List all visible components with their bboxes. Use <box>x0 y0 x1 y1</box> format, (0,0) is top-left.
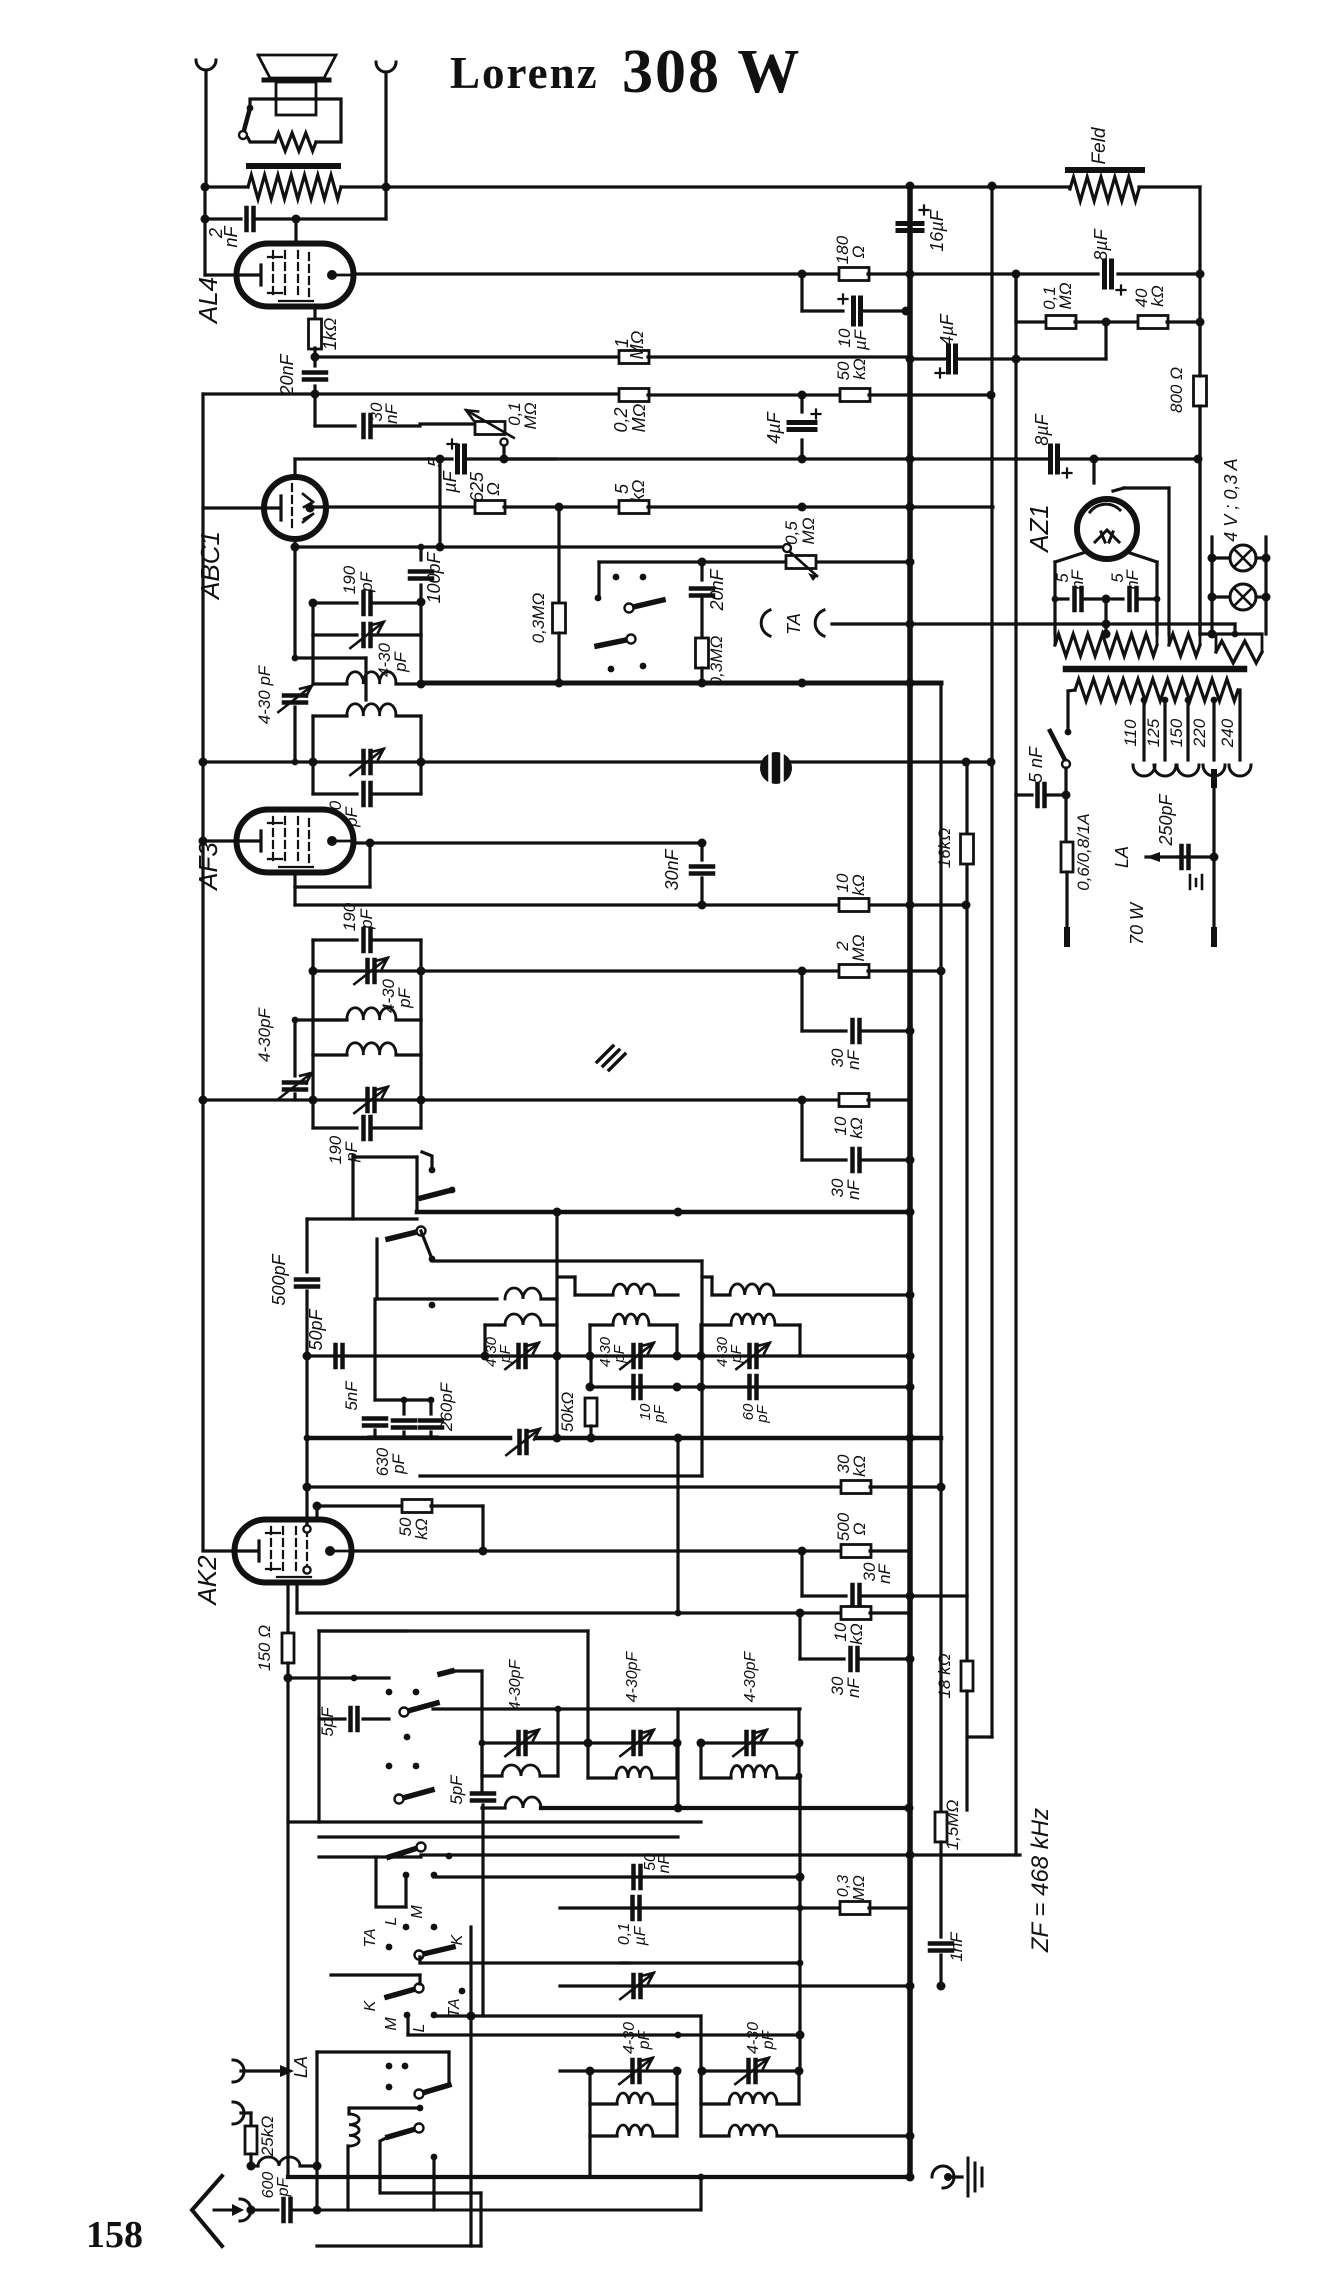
resistor 0.1MOhm <box>1046 316 1076 329</box>
svg-text:pF: pF <box>357 570 376 592</box>
svg-text:LA: LA <box>291 2056 311 2078</box>
loudspeaker <box>258 55 336 78</box>
wire vertical x678 <box>676 1709 679 1808</box>
svg-text:nF: nF <box>875 1562 894 1583</box>
bottom tank coil a <box>588 2071 591 2104</box>
wire screen line <box>315 355 620 358</box>
node <box>311 353 320 362</box>
svg-text:800 Ω: 800 Ω <box>1167 367 1186 413</box>
capacitor 600pF <box>284 2199 291 2221</box>
osc tank coil c <box>699 1325 702 1356</box>
node <box>417 680 426 689</box>
node <box>313 2162 322 2171</box>
switch lever <box>597 639 631 646</box>
capacitor 5nF filament left <box>1055 597 1068 600</box>
bottom tank coil b <box>699 2071 702 2104</box>
transformer primary winding right <box>1216 641 1262 663</box>
capacitor 30nF <box>364 415 371 437</box>
switch lever <box>429 1167 436 1174</box>
node <box>698 679 707 688</box>
wire AVC line <box>295 545 786 548</box>
node <box>906 2173 915 2182</box>
wire grid return line <box>203 392 620 395</box>
resistor 0.3MOhm <box>557 507 560 603</box>
node <box>798 1547 807 1556</box>
wire left drop from terminal <box>203 187 206 275</box>
wire <box>910 357 945 360</box>
switch box frame <box>317 1631 320 1822</box>
svg-text:pF: pF <box>760 2029 777 2050</box>
node <box>500 455 509 464</box>
osc trimmer 4-30pF a <box>519 1345 526 1367</box>
capacitor 30nF <box>800 1100 803 1160</box>
svg-text:L: L <box>383 1917 400 1926</box>
svg-text:30nF: 30nF <box>662 848 682 890</box>
output transformer core bar <box>249 163 338 169</box>
capacitor 5nF mains <box>1014 793 1017 796</box>
trimmer 4-30pF <box>368 960 375 982</box>
osc tank coil b <box>588 1325 591 1356</box>
speaker terminal right <box>376 62 396 72</box>
svg-text:0,3MΩ: 0,3MΩ <box>529 593 548 644</box>
node <box>291 543 300 552</box>
wire screen line <box>295 903 966 906</box>
wire K3 up <box>418 1975 421 1984</box>
svg-text:nF: nF <box>1123 568 1142 589</box>
IFT1 coil primary <box>311 635 314 684</box>
svg-text:70 W: 70 W <box>1127 901 1147 945</box>
capacitor 50nF <box>634 1866 641 1888</box>
oscillator coil B <box>575 1293 613 1296</box>
capacitor 5nF filament right <box>1112 597 1123 600</box>
electrolytic 8uF second <box>1051 446 1058 472</box>
svg-text:25kΩ: 25kΩ <box>258 2116 277 2157</box>
node <box>906 182 915 191</box>
node <box>1196 318 1205 327</box>
secondary taps <box>1141 697 1148 704</box>
node <box>1062 791 1071 800</box>
svg-text:8µF: 8µF <box>1091 228 1111 260</box>
wire osc coupling line <box>429 1256 436 1263</box>
ant trimmer 4-30pF b <box>588 1741 677 1744</box>
svg-text:AK2: AK2 <box>192 1555 222 1607</box>
wire LA branch <box>315 2052 318 2210</box>
capacitor 5pF second <box>472 1794 494 1801</box>
tube AF3 <box>237 810 354 873</box>
svg-text:4µF: 4µF <box>937 313 957 345</box>
wire stub <box>967 1735 992 1738</box>
svg-text:kΩ: kΩ <box>847 1623 866 1645</box>
svg-text:M: M <box>383 2017 400 2031</box>
node <box>906 1027 915 1036</box>
coupling trimmer 4-30pF <box>293 547 296 658</box>
wire tank feed line <box>433 1707 800 1710</box>
svg-text:pF: pF <box>611 1344 628 1363</box>
svg-text:308 W: 308 W <box>622 38 801 106</box>
svg-text:0,2: 0,2 <box>611 407 631 432</box>
svg-text:pF: pF <box>754 1404 771 1423</box>
svg-text:µF: µF <box>632 1925 649 1946</box>
antenna terminal <box>240 2199 251 2221</box>
svg-text:nF: nF <box>656 1853 673 1873</box>
svg-text:L: L <box>411 2024 428 2033</box>
svg-text:kΩ: kΩ <box>1148 285 1167 307</box>
wire KML line A <box>319 1855 421 1858</box>
oscillator coil C <box>712 1293 730 1296</box>
tuning gang symbol <box>760 752 792 784</box>
node <box>436 455 445 464</box>
switch contacts LA <box>386 2063 393 2070</box>
resistor 50kOhm osc grid <box>315 1506 318 1519</box>
svg-text:MΩ: MΩ <box>521 402 540 429</box>
capacitor 30nF <box>800 1551 803 1596</box>
svg-text:kΩ: kΩ <box>628 479 648 502</box>
svg-text:µF: µF <box>440 470 460 493</box>
osc trimmer 4-30pF b <box>634 1345 641 1367</box>
svg-text:nF: nF <box>844 1178 863 1199</box>
wire padder bottom <box>369 1435 437 1438</box>
svg-text:20nF: 20nF <box>707 568 727 611</box>
node <box>906 1592 915 1601</box>
IFT1 coil secondary <box>311 716 314 762</box>
transformer core bar <box>1066 666 1244 673</box>
svg-text:4 V ; 0,3 A: 4 V ; 0,3 A <box>1221 458 1241 541</box>
svg-text:16µF: 16µF <box>927 209 947 251</box>
svg-text:4-30pF: 4-30pF <box>507 1658 524 1710</box>
antenna coil primary a <box>479 1740 486 1747</box>
wire 460 line <box>504 457 910 460</box>
wire box bottom <box>288 1820 701 1823</box>
rotary switch contacts <box>613 574 620 581</box>
capacitor 1nF <box>930 1944 952 1951</box>
switch lever K2 <box>419 1947 453 1955</box>
tube AL4 <box>237 244 354 307</box>
resistor 800Ohm <box>1194 376 1207 406</box>
wire thick line to bus <box>417 1210 910 1215</box>
field coil Feld <box>992 185 1070 188</box>
capacitor 2nF <box>205 217 241 220</box>
main HT bus vertical <box>907 186 913 2177</box>
node <box>798 391 807 400</box>
svg-text:0,3: 0,3 <box>835 1875 852 1897</box>
wire switch feed <box>599 560 702 563</box>
svg-text:240: 240 <box>1218 718 1237 748</box>
wire 30nF branch <box>313 394 316 426</box>
wire thick AVC-osc line <box>307 1436 510 1441</box>
IFT2 capacitor 190pF lower <box>311 1100 314 1128</box>
wire ABC1 anode line <box>310 505 476 508</box>
svg-text:µF: µF <box>851 328 870 351</box>
svg-text:4-30 pF: 4-30 pF <box>255 664 274 724</box>
svg-text:Lorenz: Lorenz <box>450 48 599 98</box>
electrolytic 10uF <box>800 274 803 311</box>
resistor 0.2MOhm <box>619 389 649 402</box>
capacitor 10pF <box>634 1376 641 1398</box>
wire switch drop <box>447 2052 450 2085</box>
ant tank coil a <box>480 1743 483 1776</box>
svg-text:100pF: 100pF <box>424 551 444 603</box>
transformer primary winding mid <box>1169 634 1200 656</box>
svg-text:4-30pF: 4-30pF <box>742 1650 759 1702</box>
resistor 1MOhm <box>619 351 649 364</box>
svg-text:50pF: 50pF <box>306 1308 326 1350</box>
capacitor 500pF <box>305 1219 308 1272</box>
node <box>1102 318 1111 327</box>
bottom trimmer 4-30pF b <box>749 2060 756 2082</box>
resistor 500Ohm <box>841 1545 871 1558</box>
wire cathode bottom stub <box>293 539 296 547</box>
node <box>906 2132 915 2141</box>
svg-text:Ω: Ω <box>849 245 868 258</box>
osc trimmer 4-30pF c <box>750 1345 757 1367</box>
resistor 30kOhm <box>841 1481 871 1494</box>
wire antenna line <box>248 2209 278 2212</box>
node <box>698 901 707 910</box>
wire ABC1 grid lead <box>203 506 264 509</box>
svg-text:MΩ: MΩ <box>627 330 647 359</box>
tube AZ1 <box>1092 459 1095 483</box>
svg-text:LA: LA <box>1112 846 1132 868</box>
ant tank coil c <box>699 1743 702 1778</box>
trimmer in line <box>634 1975 641 1997</box>
svg-text:110: 110 <box>1121 719 1140 747</box>
resistor 625Ohm <box>475 501 505 514</box>
antenna coupling coil <box>251 2164 258 2167</box>
wire cathode top line <box>295 457 452 460</box>
svg-text:pF: pF <box>391 650 410 672</box>
svg-text:MΩ: MΩ <box>851 1875 868 1901</box>
svg-text:pF: pF <box>389 1452 408 1474</box>
wire <box>555 1212 558 1438</box>
capacitor 260pF <box>428 1397 435 1404</box>
node <box>584 1739 593 1748</box>
trimmer 4-30pF lower <box>311 1055 314 1100</box>
wire <box>305 1356 308 1438</box>
resistor 25kOhm <box>245 2126 257 2154</box>
resistor 180Ohm <box>798 270 807 279</box>
bottom tank coil b2 <box>701 2134 729 2137</box>
wire AF3 anode line <box>354 841 702 844</box>
speaker terminal left <box>196 60 216 70</box>
node <box>1052 596 1059 603</box>
node <box>906 1156 915 1165</box>
switch lever <box>629 600 663 608</box>
capacitor 630pF <box>401 1397 408 1404</box>
wire bottom trimmer row a <box>560 2069 677 2072</box>
transformer secondary winding <box>1075 679 1238 701</box>
wire AZ1 filament leads <box>1055 552 1086 562</box>
node <box>586 2067 595 2076</box>
wire vertical line right <box>1014 274 1017 1855</box>
wire trimmer row <box>307 1354 910 1357</box>
node <box>1154 596 1161 603</box>
wire grid cap lead <box>294 219 297 243</box>
resistor 16kOhm <box>961 834 974 864</box>
svg-text:150: 150 <box>1167 718 1186 747</box>
electrolytic 8uF <box>1105 261 1112 287</box>
switch contacts bottom <box>404 2012 411 2019</box>
wire to right terminal <box>296 217 386 220</box>
wire 10k line long <box>203 1098 841 1101</box>
svg-text:Ω: Ω <box>483 482 503 496</box>
node <box>201 215 210 224</box>
resistor 50kOhm osc <box>589 1356 592 1386</box>
wire switch line to bus <box>702 560 910 563</box>
ground symbol <box>968 2158 982 2196</box>
node <box>1012 355 1021 364</box>
wire <box>504 505 620 508</box>
terminal LA <box>233 2060 244 2082</box>
electrolytic 4uF right <box>949 346 956 372</box>
svg-text:MΩ: MΩ <box>629 403 649 432</box>
svg-text:260pF: 260pF <box>437 1381 456 1432</box>
svg-text:5 nF: 5 nF <box>1026 746 1046 783</box>
svg-text:0,1: 0,1 <box>616 1923 633 1945</box>
tube AK2 <box>235 1520 352 1583</box>
svg-text:150 Ω: 150 Ω <box>255 1625 274 1671</box>
switch lever K1 <box>389 1847 421 1857</box>
wire g-line AK2 <box>297 1611 842 1614</box>
resistor 1.5MOhm <box>935 1812 947 1842</box>
capacitor 20nF <box>313 357 316 366</box>
node <box>309 599 318 608</box>
resistor 18kOhm <box>965 1596 968 1660</box>
svg-text:pF: pF <box>636 2029 653 2050</box>
potentiometer 0.1MOhm volume <box>420 422 476 425</box>
ant trimmer 4-30pF a <box>519 1732 526 1754</box>
resistor 10kOhm <box>839 899 869 912</box>
svg-text:ZF = 468 kHz: ZF = 468 kHz <box>1027 1808 1054 1953</box>
svg-text:pF: pF <box>651 1404 668 1423</box>
svg-text:nF: nF <box>1068 568 1087 589</box>
bus branch vertical 2 <box>965 762 968 833</box>
node <box>313 2206 322 2215</box>
node <box>311 390 320 399</box>
svg-text:TA: TA <box>362 1928 379 1947</box>
wire <box>432 2157 435 2210</box>
wire long left vertical bus <box>201 394 204 1550</box>
svg-text:kΩ: kΩ <box>850 1455 869 1477</box>
wire K2 to 0.1uF line <box>418 1957 421 1963</box>
bottom trimmer 4-30pF a <box>633 2060 640 2082</box>
node <box>674 1804 683 1813</box>
node <box>429 1302 436 1309</box>
wire TA line bottom <box>467 2012 476 2021</box>
svg-text:kΩ: kΩ <box>412 1518 431 1540</box>
IFT2 coil upper <box>311 971 314 1020</box>
wire anode AK2 line <box>333 1549 802 1552</box>
svg-text:5pF: 5pF <box>318 1706 337 1737</box>
wire feedback hook <box>1104 322 1107 359</box>
svg-text:MΩ: MΩ <box>849 934 868 961</box>
svg-text:MΩ: MΩ <box>1056 282 1075 309</box>
svg-text:1kΩ: 1kΩ <box>320 317 340 350</box>
wire TA drop <box>469 2016 472 2246</box>
pickup TA jacks <box>761 610 770 636</box>
svg-text:0,6/0,8/1A: 0,6/0,8/1A <box>1074 813 1093 891</box>
node <box>199 758 208 767</box>
switch lever 2 <box>388 1231 421 1239</box>
output transformer primary winding <box>248 175 341 199</box>
svg-text:pF: pF <box>395 986 414 1008</box>
svg-text:1nF: 1nF <box>947 1931 966 1962</box>
capacitor 20nF <box>700 562 703 580</box>
electrolytic 16uF on bus <box>898 224 922 231</box>
wire lever feed <box>437 1671 452 1703</box>
wire screen feed 0.1M <box>1014 274 1017 322</box>
wire cathode down <box>286 1678 289 2177</box>
node <box>309 967 318 976</box>
coupling trimmer 4-30pF lower <box>292 1017 299 1024</box>
wire 50nF line <box>431 1872 438 1879</box>
speaker hum-buck switch <box>247 105 254 112</box>
mains plug on 220 tap <box>1211 772 1217 785</box>
svg-text:AZ1: AZ1 <box>1024 504 1054 554</box>
wire AK2 grid lead <box>203 1549 235 1552</box>
wire <box>351 2106 419 2109</box>
resistor 50kOhm <box>840 389 870 402</box>
capacitor 30nF <box>798 1613 801 1659</box>
resistor 0.3MOhm <box>696 638 709 668</box>
wire earth lead <box>241 2111 251 2114</box>
svg-text:4-30pF: 4-30pF <box>624 1650 641 1702</box>
svg-text:kΩ: kΩ <box>850 358 869 380</box>
resistor 5kOhm <box>619 501 649 514</box>
node <box>906 620 915 629</box>
svg-text:500pF: 500pF <box>269 1253 289 1305</box>
ant trimmer 4-30pF c <box>701 1741 799 1744</box>
svg-text:20nF: 20nF <box>277 353 297 396</box>
svg-text:4µF: 4µF <box>764 411 784 443</box>
ground clip <box>932 2166 954 2188</box>
speaker voice-coil loop wire <box>250 99 341 142</box>
node <box>553 1208 562 1217</box>
resistor 1kOhm cathode <box>313 306 316 322</box>
resistor 0.3MOhm bottom <box>840 1902 870 1915</box>
potentiometer 0.5MOhm <box>786 556 816 569</box>
wire mid line <box>319 1835 678 1838</box>
capacitor 250pF <box>1178 855 1214 858</box>
svg-text:TA: TA <box>784 613 804 635</box>
wire vertical heater line <box>990 186 993 1737</box>
wire long vertical V1 <box>480 1671 483 1790</box>
svg-text:8µF: 8µF <box>1032 413 1052 445</box>
earth terminal <box>233 2102 244 2124</box>
IFT2 capacitor 190pF <box>313 938 357 941</box>
svg-text:pF: pF <box>497 1344 514 1363</box>
wire lever to coil <box>375 1239 378 1299</box>
svg-text:MΩ: MΩ <box>799 517 818 544</box>
osc tank coil a <box>483 1325 486 1356</box>
node <box>417 598 426 607</box>
wire V1 bottom <box>479 2193 482 2246</box>
trimmer 4-30pF <box>311 603 314 635</box>
switch lever LA2 <box>388 2128 419 2137</box>
svg-text:pF: pF <box>728 1344 745 1363</box>
svg-text:18 kΩ: 18 kΩ <box>935 1653 954 1698</box>
wire vertical to 100pF line <box>438 459 441 547</box>
wire TA vertical <box>469 1927 472 2016</box>
svg-text:pF: pF <box>275 2176 292 2197</box>
svg-text:AF3: AF3 <box>193 842 223 892</box>
node <box>284 1674 293 1683</box>
IFT2 coil lower <box>311 1020 314 1055</box>
svg-text:ABC1: ABC1 <box>195 531 225 601</box>
wire tank a down <box>588 2136 591 2177</box>
transformer primary winding left <box>1055 634 1157 656</box>
node <box>798 455 807 464</box>
node <box>796 1873 805 1882</box>
